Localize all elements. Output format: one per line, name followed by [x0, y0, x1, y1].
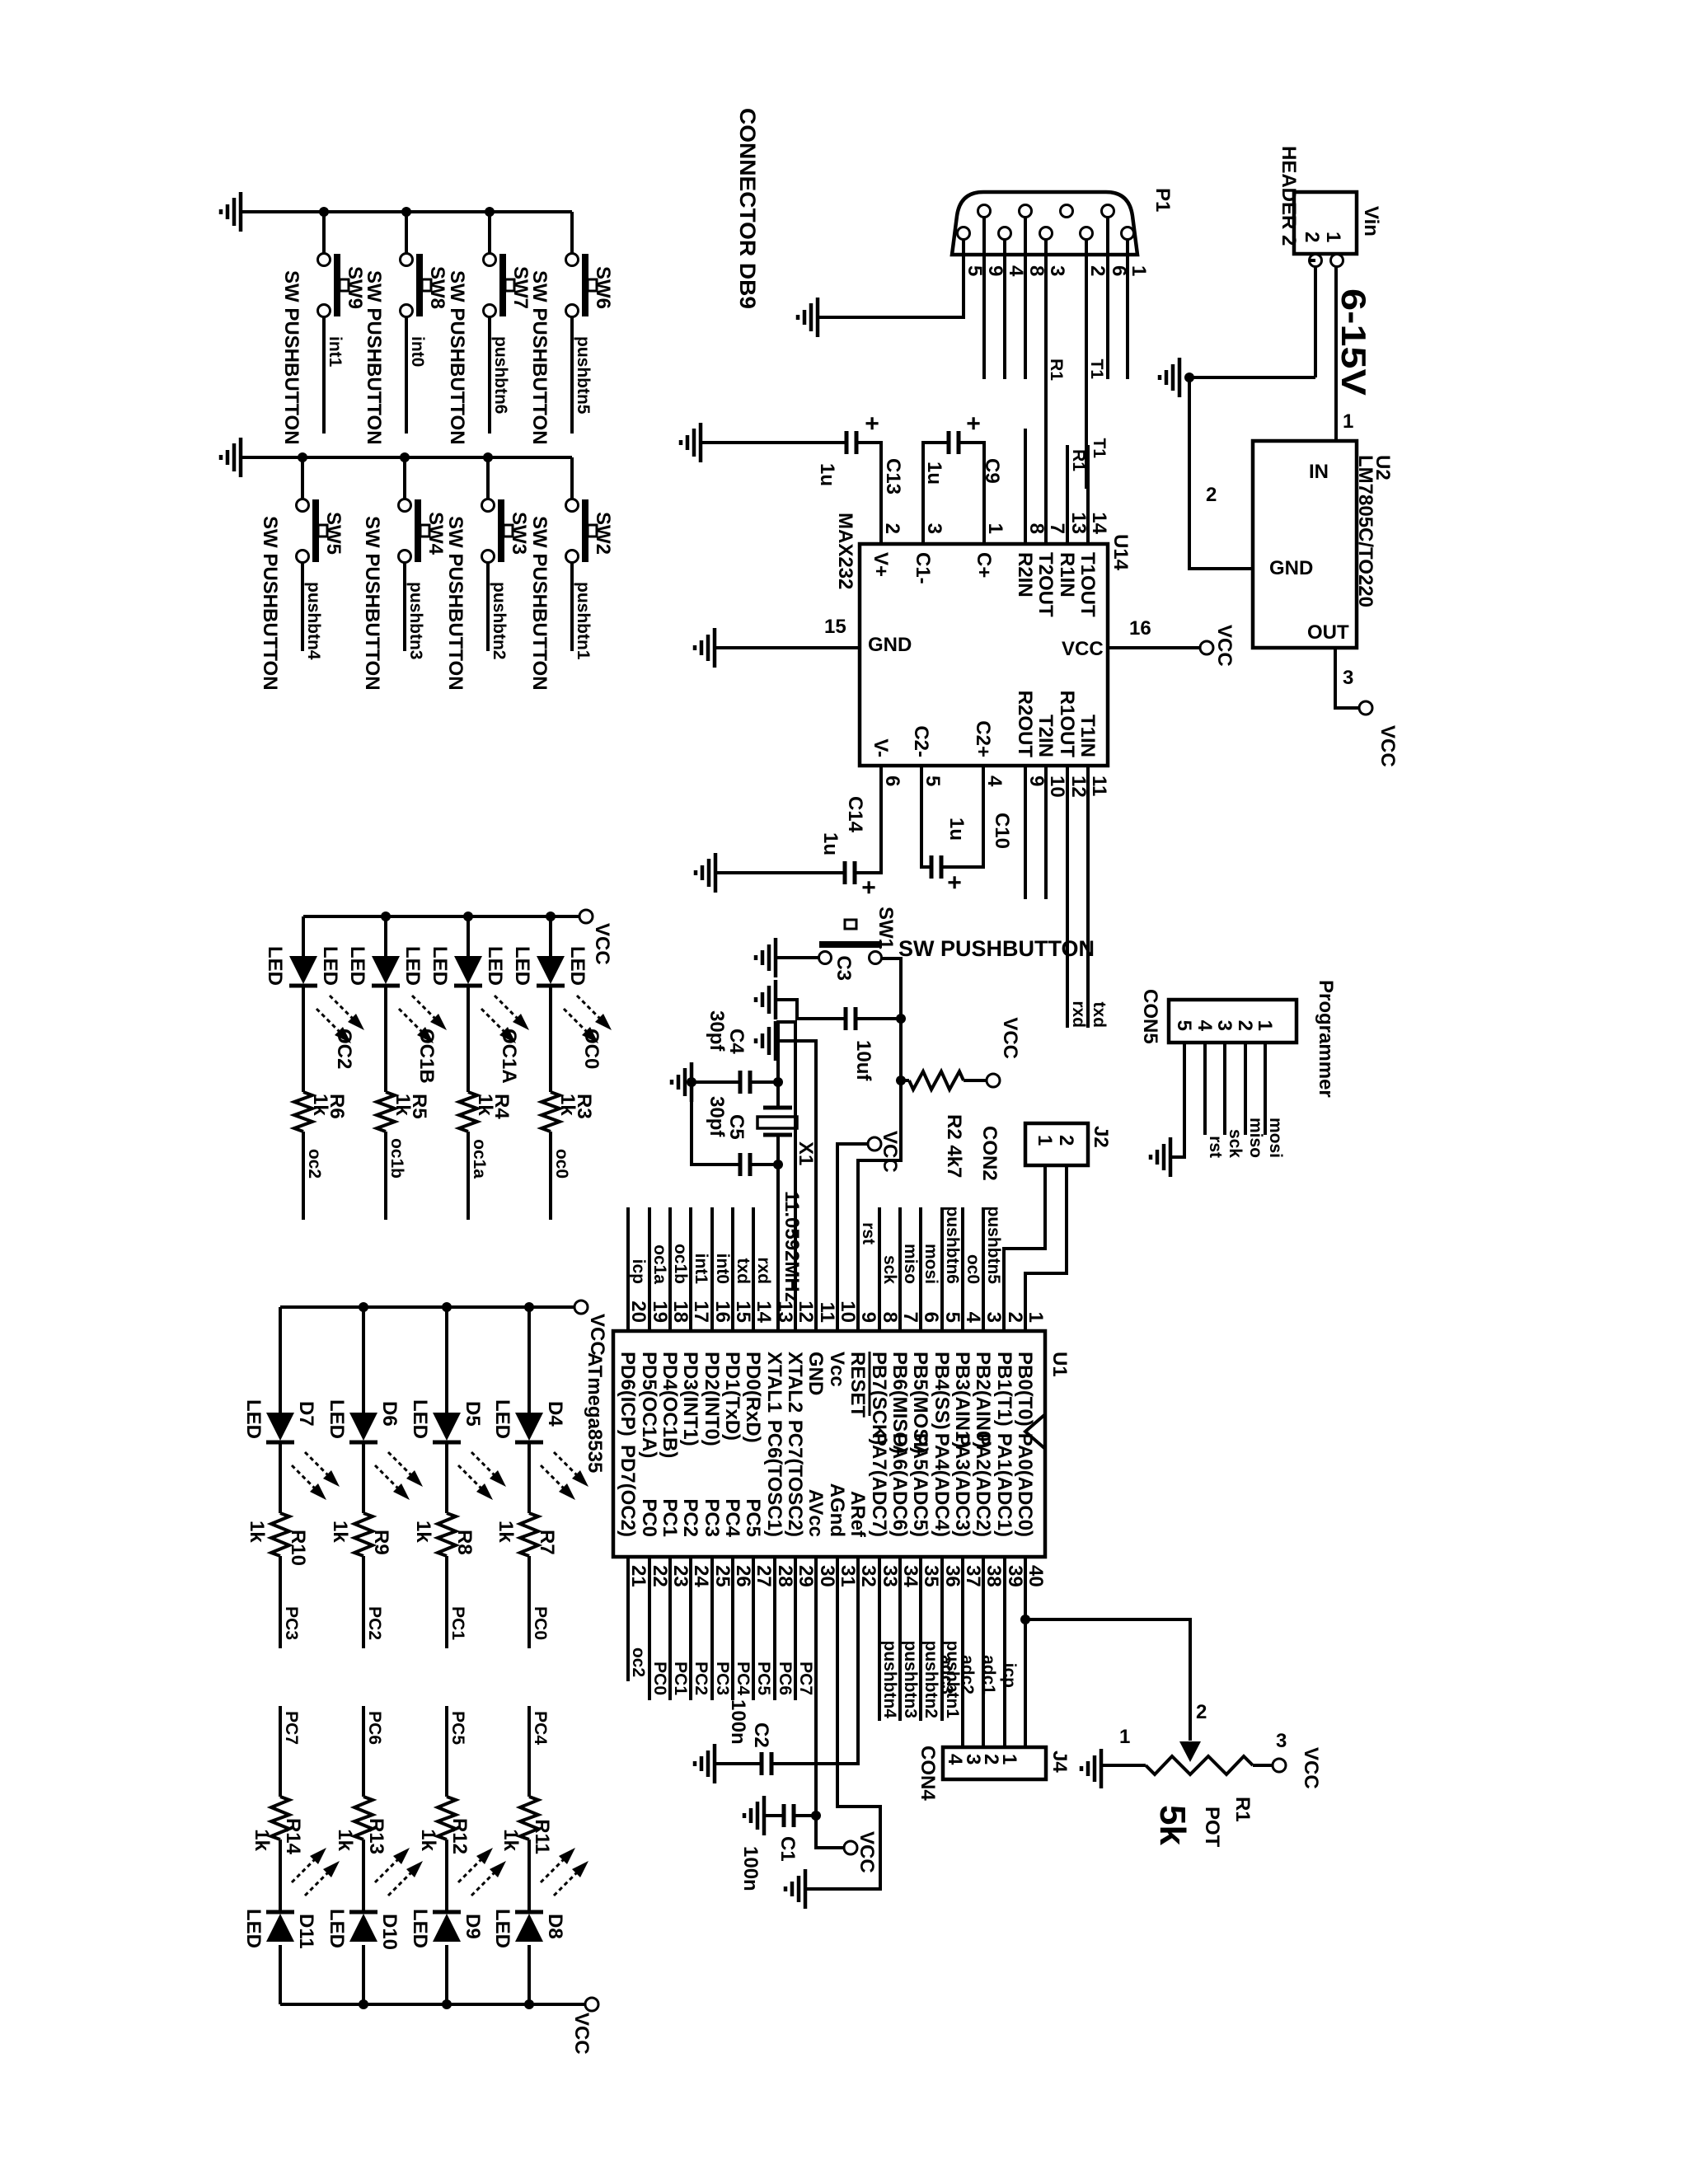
label D9	[462, 1914, 484, 1939]
svg-text:13: 13	[774, 1301, 796, 1323]
svg-text:adc2: adc2	[958, 1655, 977, 1694]
label 1k - R12	[417, 1829, 439, 1851]
pin number 6 - DB9	[1108, 265, 1130, 276]
junction - bus to LED OC1B	[381, 912, 391, 921]
pin name PA3(ADC3) - U1 pin 37	[951, 1433, 973, 1537]
svg-text:SW3: SW3	[508, 512, 530, 555]
net label oc1b	[387, 1138, 406, 1179]
svg-text:30: 30	[816, 1565, 838, 1587]
svg-text:PC5: PC5	[742, 1498, 764, 1537]
net label miso - U1 pin 7	[901, 1244, 920, 1284]
svg-text:J4: J4	[1048, 1750, 1071, 1773]
label C4	[725, 1029, 748, 1054]
pushbutton SW7	[484, 254, 532, 317]
label 1u - C13	[816, 463, 838, 486]
svg-text:int0: int0	[713, 1254, 732, 1284]
net label rst - CON5	[1206, 1136, 1225, 1158]
svg-text:1k: 1k	[251, 1829, 273, 1851]
wire - U1 pin 25 net PC3	[710, 1557, 714, 1700]
wire - DB9 pin 8 stub	[1024, 218, 1027, 379]
net label oc2	[305, 1149, 324, 1179]
label 1k - R8	[412, 1521, 434, 1543]
junction - bus to D9	[442, 1999, 452, 2009]
wire - U1 pin21 net oc2	[626, 1557, 630, 1681]
svg-text:LED: LED	[401, 946, 424, 986]
pin name PD7(OC2) - U1 pin 21	[617, 1445, 639, 1537]
net label PC1	[448, 1606, 467, 1640]
pin name PA5(ADC5) - U1 pin 35	[909, 1433, 931, 1537]
ic U1 ATmega8535 box	[613, 1331, 1045, 1557]
label C13	[882, 458, 904, 494]
junction - bus to LED OC0	[546, 912, 556, 921]
net label mosi - U1 pin 6	[921, 1244, 940, 1284]
svg-text:LED: LED	[326, 1909, 348, 1948]
svg-text:U14: U14	[1109, 534, 1132, 571]
wire - DB9 pin 6 stub	[1106, 218, 1109, 379]
svg-text:39: 39	[1004, 1565, 1026, 1587]
net label pushbtn1	[574, 582, 593, 660]
svg-text:28: 28	[774, 1565, 796, 1587]
pin number 7 - U14	[1046, 523, 1068, 534]
svg-text:22: 22	[649, 1565, 671, 1587]
svg-text:PD2(INT0): PD2(INT0)	[701, 1352, 723, 1446]
net label PC6	[365, 1711, 384, 1745]
svg-text:R2OUT: R2OUT	[1014, 691, 1036, 758]
label R1	[1231, 1797, 1254, 1822]
wire - C4 to ground dot	[692, 1080, 740, 1084]
svg-text:ARef: ARef	[846, 1491, 869, 1538]
pin number 5 - U1	[941, 1312, 964, 1323]
wire - U1 pin 20 net icp	[626, 1207, 630, 1331]
resistor R6 1k	[294, 1092, 312, 1132]
net label oc1a	[470, 1139, 489, 1179]
pin number 2 - CON4	[980, 1754, 1002, 1765]
label LED - D9	[409, 1909, 431, 1948]
svg-text:PC3: PC3	[701, 1498, 723, 1537]
label R7	[536, 1530, 558, 1555]
led D9	[433, 1912, 461, 1942]
junction - crystal ground	[687, 1077, 696, 1087]
svg-text:R2 4k7: R2 4k7	[943, 1114, 965, 1178]
label 5k	[1152, 1805, 1193, 1845]
svg-text:SW PUSHBUTTON: SW PUSHBUTTON	[444, 516, 467, 691]
ground - U14 pin15	[695, 628, 715, 668]
svg-text:pushbtn4: pushbtn4	[304, 582, 323, 660]
wire - LED bank OC bus	[303, 915, 579, 918]
svg-text:rst: rst	[859, 1222, 878, 1244]
svg-text:PC2: PC2	[679, 1498, 701, 1537]
wire - bus to D4	[527, 1307, 531, 1413]
pin number 14 - U1	[753, 1301, 775, 1323]
junction - bus to D4	[524, 1302, 534, 1312]
pin name R1OUT - U14 pin 12	[1056, 691, 1078, 758]
svg-text:MAX232: MAX232	[834, 513, 856, 589]
svg-text:PD7(OC2): PD7(OC2)	[617, 1445, 639, 1537]
label SW PUSHBUTTON - SW8	[363, 270, 385, 445]
label LED - D8	[491, 1909, 513, 1948]
net label pushbtn4 - U1 pin 33	[880, 1641, 899, 1719]
pin number 1 - CON5	[1254, 1020, 1276, 1031]
pin number 15 - U14	[824, 616, 846, 638]
pushbutton SW4	[399, 499, 448, 563]
svg-text:IN: IN	[1309, 461, 1329, 483]
svg-text:1: 1	[1254, 1020, 1276, 1031]
pin name PB7(SCK) - U1 pin 8	[868, 1352, 890, 1445]
svg-text:pushbtn2: pushbtn2	[490, 582, 509, 660]
svg-text:txd: txd	[734, 1258, 753, 1285]
pin number 4 - U1	[962, 1312, 984, 1324]
svg-text:PD3(INT1): PD3(INT1)	[679, 1352, 701, 1446]
pin number 2 - pot wiper	[1196, 1701, 1207, 1723]
svg-text:PC1: PC1	[659, 1498, 681, 1537]
svg-text:PD0(RxD): PD0(RxD)	[742, 1352, 764, 1443]
pin number 3 - CON5	[1213, 1020, 1236, 1031]
wire - U14 pin6 to C14	[855, 766, 881, 873]
svg-text:oc1a: oc1a	[650, 1244, 669, 1284]
pin number 25 - U1	[711, 1565, 734, 1587]
svg-text:11: 11	[1088, 776, 1110, 796]
wire - U1 pin 24 net PC2	[689, 1557, 692, 1700]
svg-text:5: 5	[1173, 1020, 1195, 1031]
label CONNECTOR DB9	[735, 108, 760, 309]
net label rst - U1 pin 9	[859, 1222, 878, 1244]
wire - U1 pin31 AGnd	[805, 1557, 880, 1889]
svg-text:VCC: VCC	[999, 1017, 1021, 1059]
pin number 39 - U1	[1004, 1565, 1026, 1587]
svg-text:12: 12	[795, 1301, 817, 1323]
net label pushbtn5 - U1 pin 3	[984, 1207, 1003, 1285]
wire - U14 pin14 (T1)	[1086, 445, 1090, 544]
pin name PA4(ADC4) - U1 pin 36	[931, 1433, 953, 1537]
label R8	[453, 1530, 476, 1555]
wire - U2 OUT pin3	[1335, 648, 1359, 708]
pin number 1 - U1	[1025, 1312, 1047, 1323]
wire - pin40 to CON4 pin1	[1024, 1619, 1027, 1747]
pin name C2+ - U14 pin 4	[972, 720, 994, 757]
pin name PA2(ADC2) - U1 pin 38	[972, 1433, 994, 1537]
wire - U1 pin 14 net rxd	[752, 1207, 755, 1331]
pin name V- - U14 pin 6	[870, 738, 892, 757]
wire - U14 pin5 to C10	[921, 766, 931, 867]
pin number 1 - U14	[984, 523, 1006, 534]
wire - R9 to net PC2	[362, 1556, 365, 1648]
svg-text:C2: C2	[750, 1722, 772, 1748]
ground - C3	[756, 980, 776, 1019]
svg-text:SW PUSHBUTTON: SW PUSHBUTTON	[446, 270, 468, 445]
wire - U1 pin 17 net int1	[689, 1207, 692, 1331]
wire - bus to LED OC1A	[467, 916, 470, 956]
svg-text:1k: 1k	[412, 1521, 434, 1543]
net label pushbtn3	[406, 582, 425, 660]
label 1k - R13	[334, 1829, 356, 1851]
capacitor C13	[846, 431, 856, 454]
svg-text:adc1: adc1	[979, 1655, 998, 1694]
svg-text:PB0(T0): PB0(T0)	[1014, 1352, 1036, 1427]
wire - bus to SW9	[322, 212, 326, 254]
led arrows - D7	[292, 1452, 340, 1500]
wire - bus to SW5	[301, 457, 304, 499]
resistor R1 POT body	[1146, 1756, 1253, 1774]
svg-text:rst: rst	[1206, 1136, 1225, 1158]
label 6-15V	[1334, 288, 1373, 396]
svg-text:+: +	[959, 416, 987, 431]
junction - bus to SW5	[298, 452, 307, 462]
svg-text:R1: R1	[1047, 359, 1066, 381]
ic U1 notch	[1025, 1415, 1044, 1448]
pin number 3 - DB9	[1046, 265, 1068, 276]
pin number 37 - U1	[962, 1565, 984, 1587]
junction - xtal right	[773, 1160, 783, 1169]
pin number 31 - U1	[837, 1565, 859, 1587]
svg-text:2: 2	[1055, 1135, 1077, 1146]
svg-text:oc2: oc2	[305, 1149, 324, 1179]
ground - U1 pin11	[756, 1021, 776, 1061]
label R13	[365, 1818, 387, 1854]
svg-text:pushbtn6: pushbtn6	[491, 336, 510, 415]
wire - bus to D7	[279, 1307, 282, 1413]
led LED OC1B	[372, 956, 400, 986]
net label miso - CON5	[1246, 1118, 1265, 1158]
wire - net PC6 to R13	[362, 1706, 365, 1797]
wire - C1 to ground	[764, 1814, 784, 1817]
net label PC1	[671, 1661, 690, 1695]
svg-text:32: 32	[857, 1565, 879, 1587]
capacitor C1	[784, 1804, 794, 1827]
net label PC7	[282, 1711, 301, 1745]
wire - C5 top to xtal dot	[750, 1163, 778, 1166]
wire - U14 pin9 stub	[1024, 766, 1027, 899]
svg-text:3: 3	[1276, 1730, 1287, 1752]
regulator U2 LM7805 box	[1253, 441, 1357, 648]
svg-text:rxd: rxd	[1069, 1001, 1088, 1028]
pin number 12 - U1	[795, 1301, 817, 1323]
wire - SW1 bottom pin to ground	[776, 956, 818, 959]
wire - U1 pin 38 net adc2	[982, 1557, 985, 1747]
label 1k - R5	[392, 1094, 414, 1116]
label R6	[326, 1094, 348, 1119]
wire - U14 pin7 stub	[1044, 429, 1048, 544]
svg-text:1: 1	[984, 523, 1006, 534]
net label pushbtn2 - U1 pin 35	[921, 1641, 940, 1719]
label R9	[370, 1530, 392, 1555]
label MAX232	[834, 513, 856, 589]
plus sign - C9	[959, 416, 987, 431]
capacitor C5	[740, 1153, 750, 1176]
pin name PA0(ADC0) - U1 pin 40	[1014, 1433, 1036, 1537]
pin name PB5(MOSI) - U1 pin 6	[909, 1352, 931, 1454]
label ATmega8535	[584, 1352, 606, 1473]
svg-text:VCC: VCC	[1376, 725, 1399, 767]
svg-text:icp: icp	[629, 1259, 648, 1284]
svg-text:SW7: SW7	[509, 266, 532, 309]
svg-text:6: 6	[1108, 265, 1130, 276]
label 30pf - C5	[706, 1096, 728, 1137]
svg-text:POT: POT	[1201, 1807, 1223, 1848]
pushbutton SW2	[566, 499, 615, 563]
svg-text:R2IN: R2IN	[1014, 552, 1036, 598]
resistor R12 1k	[438, 1797, 456, 1840]
svg-text:9: 9	[984, 265, 1006, 276]
label SW PUSHBUTTON - SW7	[446, 270, 468, 445]
net label pushbtn6 - U1 pin 5	[943, 1207, 962, 1285]
svg-text:PC0: PC0	[531, 1606, 550, 1640]
svg-text:15: 15	[732, 1301, 754, 1323]
svg-text:CONNECTOR DB9: CONNECTOR DB9	[735, 108, 760, 309]
net label R1 - U14 pin13	[1069, 449, 1088, 471]
svg-text:35: 35	[920, 1565, 942, 1587]
pin number 3 - CON4	[962, 1754, 984, 1765]
net label icp	[1000, 1663, 1019, 1688]
ground - bank SW2-SW5	[221, 438, 241, 477]
pin number 13 - U1	[774, 1301, 796, 1323]
wire - header pin2 down	[1309, 260, 1315, 377]
vcc symbol - U1 pin10	[868, 1137, 881, 1151]
junction - pin40/pot	[1020, 1615, 1030, 1624]
svg-text:3: 3	[1046, 265, 1068, 276]
pin name T1IN - U14 pin 11	[1076, 715, 1099, 757]
wire - U1 pin 36 net pushbtn1	[940, 1557, 944, 1721]
wire - U14 pin3 to C9	[923, 443, 949, 544]
wire - bus to D11	[279, 1945, 282, 2004]
wire - gnd rail u1313	[750, 1080, 778, 1084]
ic U14 MAX232 box	[860, 544, 1108, 766]
led arrows - D4	[541, 1452, 588, 1500]
wire - bus to LED OC1B	[384, 916, 387, 956]
net label adc2	[958, 1655, 977, 1694]
wire - U1 pin 27 net PC5	[752, 1557, 755, 1700]
wire - U14 pin16 VCC	[1108, 646, 1200, 649]
svg-text:SW8: SW8	[426, 266, 448, 309]
pin name XTAL2 - U1 pin 12	[784, 1352, 806, 1413]
led D4	[515, 1413, 543, 1442]
svg-text:36: 36	[941, 1565, 964, 1587]
wire - C2 to ground	[715, 1762, 762, 1765]
svg-text:2: 2	[1196, 1701, 1207, 1723]
pin name PC6(TOSC1) - U1 pin 28	[763, 1420, 785, 1537]
svg-text:10uf: 10uf	[852, 1040, 874, 1081]
svg-text:9: 9	[1025, 776, 1048, 786]
svg-text:9: 9	[857, 1312, 879, 1323]
label VCC - AVcc	[856, 1831, 878, 1873]
wire - DB9 pin 2 (T1)	[1085, 240, 1088, 489]
svg-text:+: +	[855, 880, 882, 895]
junction - bus to D5	[442, 1302, 452, 1312]
wire - SW4 to net pushbtn3	[403, 562, 406, 651]
junction - bus to SW3	[483, 452, 493, 462]
svg-text:OUT: OUT	[1307, 621, 1349, 644]
svg-text:C4: C4	[725, 1029, 748, 1054]
wire - U14 pin1 to C9	[959, 443, 984, 544]
wire - D6 to R9	[362, 1444, 365, 1513]
svg-text:C10: C10	[991, 813, 1013, 849]
svg-text:PD1(TxD): PD1(TxD)	[721, 1352, 743, 1441]
svg-text:1: 1	[1034, 1135, 1056, 1146]
ground - C13	[681, 423, 701, 462]
wire - CON5 pin5 to ground	[1170, 1043, 1184, 1157]
label OC1A	[498, 1029, 520, 1084]
svg-text:25: 25	[711, 1565, 734, 1587]
pin number 15 - U1	[732, 1301, 754, 1323]
pin number 17 - U1	[690, 1301, 712, 1323]
label C14	[844, 796, 866, 833]
wire - C3 to ground	[776, 1000, 846, 1019]
pin name OUT	[1307, 621, 1349, 644]
wire - LED to R6	[302, 987, 305, 1092]
pin number 2 - DB9	[1086, 265, 1109, 276]
svg-text:+: +	[940, 875, 968, 890]
svg-text:miso: miso	[1246, 1118, 1265, 1158]
label J4	[1048, 1750, 1071, 1773]
svg-text:PA1(ADC1): PA1(ADC1)	[993, 1433, 1015, 1537]
vcc symbol - LED bank D4-D7	[574, 1301, 588, 1314]
net label PC5	[448, 1711, 467, 1745]
wire - gnd dot to C5	[692, 1082, 740, 1165]
pin circle - DB9 pin 3	[1040, 227, 1053, 240]
svg-text:10: 10	[1046, 776, 1068, 798]
pin name PD1(TxD) - U1 pin 15	[721, 1352, 743, 1441]
label D7	[295, 1401, 317, 1427]
svg-text:PC7: PC7	[282, 1711, 301, 1745]
pin number 8 - U1	[879, 1312, 901, 1323]
wire - U1 pin 39 net adc1	[1003, 1557, 1006, 1747]
pin number 1 - DB9	[1128, 265, 1150, 276]
svg-text:SW9: SW9	[344, 266, 366, 309]
svg-text:D10: D10	[378, 1914, 401, 1950]
ground - C1	[744, 1796, 764, 1835]
net label oc2	[629, 1647, 648, 1677]
svg-text:1: 1	[1025, 1312, 1047, 1323]
svg-text:2: 2	[881, 523, 903, 534]
label 1u - C10	[945, 818, 968, 841]
svg-text:1k: 1k	[309, 1094, 331, 1116]
net label oc1b - U1 pin 18	[671, 1244, 690, 1284]
svg-text:PB7(SCK): PB7(SCK)	[868, 1352, 890, 1445]
svg-text:8: 8	[1025, 523, 1048, 534]
label LED - D7	[242, 1399, 265, 1439]
svg-text:4: 4	[983, 776, 1006, 787]
svg-text:11: 11	[816, 1302, 838, 1323]
pin name R2IN - U14 pin 8	[1014, 552, 1036, 598]
wire - U14 pin12 (rxd)	[1066, 766, 1069, 1028]
wire - bus to SW8	[405, 212, 408, 254]
label 1k - R7	[495, 1521, 517, 1543]
net label rxd	[1069, 1001, 1088, 1028]
svg-text:LED: LED	[264, 946, 286, 986]
svg-text:1k: 1k	[329, 1521, 351, 1543]
svg-text:14: 14	[753, 1301, 775, 1323]
label 1k - R4	[474, 1094, 496, 1116]
svg-text:LED: LED	[409, 1399, 431, 1439]
svg-text:pushbtn3: pushbtn3	[406, 582, 425, 660]
wire - AVcc to C1	[794, 1814, 816, 1817]
wire - J2 pin1 to U1 pin2	[1004, 1165, 1045, 1331]
label VCC - LED bank OC	[591, 923, 613, 965]
svg-text:R13: R13	[365, 1818, 387, 1854]
ground - CON5	[1151, 1137, 1170, 1177]
net label icp - U1 pin 20	[629, 1259, 648, 1284]
net label sck - CON5	[1226, 1129, 1245, 1158]
ground - AGnd	[785, 1869, 805, 1909]
label VCC - LED bank D8-D11	[570, 2013, 593, 2055]
wire - LED to R4	[467, 987, 470, 1092]
pin name PB2(AIN0) - U1 pin 3	[972, 1352, 994, 1448]
pin name PD5(OC1A) - U1 pin 19	[638, 1352, 660, 1458]
wire - U14 pin2 to C13	[856, 443, 881, 544]
label LED below - OC0	[511, 946, 533, 986]
label LED above - OC1B	[401, 946, 424, 986]
capacitor C2	[762, 1752, 771, 1775]
pin number 5 - U14	[921, 776, 944, 786]
